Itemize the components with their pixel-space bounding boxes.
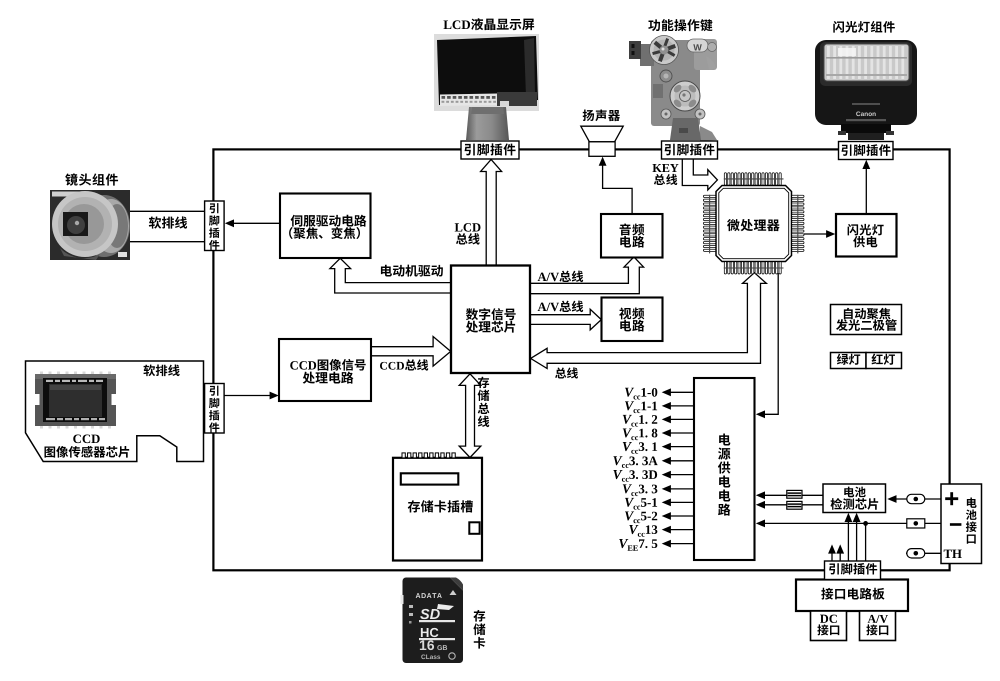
block 电池检测芯片 battery detect chip <box>823 484 886 513</box>
wire motor-drive channel (DSP to servo, hollow up-arrow) <box>330 258 451 293</box>
text 电源供电电路 (vertical) <box>718 434 731 516</box>
connector battery TH terminal <box>907 549 925 558</box>
wire battery TH line <box>906 552 941 554</box>
text 引脚插件 (keys) <box>665 144 715 156</box>
label LCD液晶显示屏 <box>444 18 535 30</box>
connector battery minus terminal <box>907 519 925 528</box>
text 红灯 <box>872 354 895 365</box>
text A/V接口 <box>868 615 888 623</box>
photo 功能操作键 key assembly <box>629 36 717 142</box>
label A/V总线 (video) <box>538 301 584 312</box>
block 闪光灯供电 flash power supply <box>836 214 897 257</box>
wire audio circuit to speaker with arrow <box>599 157 632 214</box>
text 微处理器 <box>727 219 780 231</box>
outline card slot lock square <box>469 522 479 534</box>
wire KEY bus (key connector to microprocessor, hollow right-arrow) <box>682 160 717 191</box>
photo LCD液晶显示屏 LCD panel with ribbon <box>434 34 539 140</box>
connector 引脚插件 (LCD, top edge) <box>461 141 519 159</box>
block 存储卡插槽 memory card slot <box>393 458 482 561</box>
text 引脚插件 (bottom) <box>829 563 877 574</box>
text battery TH terminal <box>944 550 962 558</box>
block 电源供电电路 power supply circuit <box>694 378 755 560</box>
component 扬声器 speaker symbol <box>581 126 623 156</box>
label CCD总线 <box>380 359 428 370</box>
label Vcc supply rail names <box>613 388 657 551</box>
connector 引脚插件 (bottom edge) <box>825 561 881 580</box>
block 绿灯 green lamp <box>831 353 867 369</box>
block 电池接口 battery interface <box>941 484 982 564</box>
outline card slot opening <box>401 473 459 484</box>
photo 存储卡 SD memory card <box>401 578 464 664</box>
wire battery-detect to power-supply line 1 with arrow <box>756 491 823 499</box>
block 音频电路 audio circuit <box>601 214 663 258</box>
label CCD 图像传感器芯片 <box>73 435 99 444</box>
wire bottom connector line 1 with up arrow <box>828 544 836 561</box>
text 音频电路 <box>620 223 645 235</box>
wire microprocessor to flash power with arrow <box>804 230 835 238</box>
text 视频电路 <box>619 307 644 319</box>
text 引脚插件 (LCD) <box>465 143 516 155</box>
wire CCD connector to CCD signal-processing circuit with arrow <box>224 392 279 400</box>
block 数字信号处理芯片 DSP chip <box>451 266 530 374</box>
wire A/V bus (DSP to video circuit, hollow right-arrow) <box>530 309 601 330</box>
text 自动聚焦发光二极管 <box>844 308 891 320</box>
wire bottom connector to battery-detect line 2 with arrow <box>853 513 861 561</box>
wire bottom connector to minus-line junction <box>865 523 867 561</box>
connector 引脚插件 (keys, top edge) <box>662 141 718 159</box>
photo CCD image sensor chip <box>35 372 116 429</box>
text 引脚插件 (flash) <box>842 144 891 156</box>
block A/V接口 AV jack <box>860 611 896 641</box>
wire battery-detect to power-supply line 2 with arrow <box>756 501 823 509</box>
component ferrite bead 2 on detect line <box>787 501 802 509</box>
wire CCD bus (CCD processing to DSP, hollow right-arrow) <box>371 337 451 367</box>
chip 微处理器 QFP microprocessor body and pins <box>703 173 804 274</box>
wire main bus (microprocessor to DSP, hollow double arrow) <box>531 273 767 369</box>
text DC接口 <box>820 615 837 623</box>
wire battery minus line to power supply with arrow <box>756 520 941 528</box>
label 电动机驱动 <box>381 265 443 277</box>
text 闪光灯供电 <box>848 224 884 235</box>
text 引脚插件 (CCD, vertical) <box>209 386 219 433</box>
text battery - terminal <box>950 523 962 526</box>
wire microprocessor to power-supply circuit with arrow <box>756 273 778 418</box>
label 功能操作键 <box>648 19 712 31</box>
label 软排线 (lens) <box>149 216 187 228</box>
label 总线 (micro-DSP bus) <box>555 367 578 378</box>
wire 12 Vcc supply output lines with arrows <box>662 388 694 547</box>
block 接口电路板 interface circuit board <box>796 580 908 612</box>
block 视频电路 video circuit <box>602 298 663 342</box>
connector 引脚插件 (lens, left edge) <box>205 201 225 251</box>
photo 镜头组件 lens assembly <box>50 190 130 260</box>
text CCD图像信号处理电路 <box>290 359 365 371</box>
wire memory bus (DSP to card slot, hollow double arrow) <box>459 374 481 458</box>
wire A/V bus (DSP to audio circuit, hollow up-arrow) <box>530 257 644 294</box>
label 软排线 (CCD) <box>143 365 179 377</box>
label 存储卡 (vertical) <box>473 610 485 649</box>
wire flash power to flash connector with arrow <box>862 160 870 214</box>
text 电池检测芯片 <box>844 487 865 498</box>
label 闪光灯组件 <box>833 21 895 33</box>
label 镜头组件 <box>65 173 118 185</box>
block 红灯 red lamp <box>866 353 902 369</box>
text battery + terminal <box>945 492 958 505</box>
label 存储总线 (vertical) <box>478 377 490 427</box>
wire main circuit-board border <box>213 149 949 570</box>
outline CCD sensor board polygon <box>26 361 204 462</box>
text 绿灯 <box>837 354 860 365</box>
block 伺服驱动电路 servo drive circuit <box>280 194 371 259</box>
text 数字信号处理芯片 <box>466 308 516 320</box>
block CCD图像信号处理电路 <box>279 339 371 401</box>
text 引脚插件 (lens, vertical) <box>209 203 219 250</box>
connector 引脚插件 (CCD, left edge) <box>205 384 225 434</box>
connector 引脚插件 (flash, top edge) <box>839 142 894 160</box>
text 伺服驱动电路（聚焦、变焦） <box>291 215 367 227</box>
text 接口电路板 <box>821 588 884 600</box>
wire battery plus line to battery-detect chip with arrow <box>887 495 941 503</box>
label LCD总线 <box>455 223 481 231</box>
label KEY总线 <box>653 164 679 172</box>
block 自动聚焦发光二极管 AF LED <box>831 305 902 335</box>
wire bottom connector to battery-detect line 1 with arrow <box>845 513 853 561</box>
component ferrite bead 1 on detect line <box>787 490 802 498</box>
label 扬声器 <box>583 110 620 122</box>
pins card slot top pins <box>402 453 455 458</box>
wire flex-cable lower line (lens to connector) <box>128 241 206 243</box>
connector battery plus terminal <box>907 494 925 503</box>
wire bottom connector line 2 with up arrow <box>836 544 844 561</box>
block DC接口 DC jack <box>811 611 847 641</box>
wire LCD bus (DSP to LCD connector, hollow up-arrow) <box>481 160 502 266</box>
wire servo-drive to lens connector with arrow <box>225 219 281 227</box>
node junction dot on minus line <box>863 521 868 526</box>
label A/V总线 (audio) <box>538 271 584 282</box>
photo 闪光灯组件 flash unit <box>815 40 917 140</box>
text 存储卡插槽 <box>408 500 473 512</box>
wire flex-cable upper line (lens to connector) <box>128 210 206 212</box>
text 电池接口 (vertical) <box>966 497 977 543</box>
